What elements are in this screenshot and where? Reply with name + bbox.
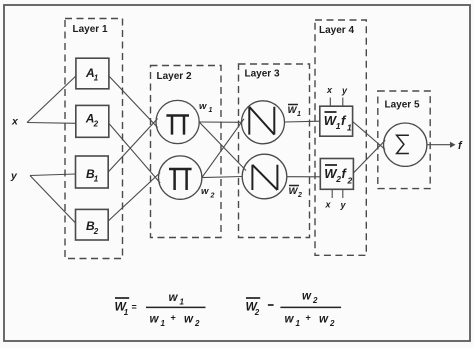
svg-text:2: 2 xyxy=(335,174,341,184)
x y stubs below rule box 2 xyxy=(331,189,333,198)
label Wbar2 xyxy=(289,185,299,187)
sum node circle xyxy=(384,123,427,166)
svg-text:W: W xyxy=(289,186,299,197)
svg-text:w: w xyxy=(199,101,207,112)
svg-text:w: w xyxy=(169,292,179,304)
x y stubs above rule box 1 xyxy=(329,98,331,107)
svg-text:Layer 1: Layer 1 xyxy=(73,24,108,35)
svg-text:w: w xyxy=(319,314,329,326)
svg-text:2: 2 xyxy=(312,296,318,305)
svg-text:2: 2 xyxy=(347,176,353,186)
wire x to A2 xyxy=(27,122,76,125)
svg-text:w: w xyxy=(184,314,194,326)
rule box 1 xyxy=(320,106,353,136)
wire x to A1 xyxy=(27,76,76,123)
svg-text:1: 1 xyxy=(347,123,352,133)
svg-text:Layer 5: Layer 5 xyxy=(385,100,420,111)
wire N1 to rule box 1 xyxy=(285,120,320,123)
svg-text:Layer 4: Layer 4 xyxy=(319,25,354,36)
svg-text:1: 1 xyxy=(180,298,185,307)
svg-text:2: 2 xyxy=(254,308,260,317)
equation 2: Wbar2 = w2/(w1+w2) xyxy=(246,297,260,299)
product node P2 circle xyxy=(159,156,202,199)
svg-text:Layer 3: Layer 3 xyxy=(245,69,280,80)
wire y to B1 xyxy=(30,174,76,176)
svg-text:1: 1 xyxy=(296,319,301,328)
wire rule box 1 to Sum xyxy=(353,122,385,150)
svg-text:y: y xyxy=(341,86,348,96)
svg-text:2: 2 xyxy=(210,192,215,199)
wire A2 to P2 xyxy=(109,123,160,183)
Layer 5 dashed box xyxy=(378,91,430,189)
wire B2 to P2 xyxy=(108,173,160,222)
membership box A1 xyxy=(76,58,109,89)
svg-text:+: + xyxy=(171,313,176,323)
membership box A2 xyxy=(76,105,109,137)
wire P1 to N1 xyxy=(199,121,241,123)
wire N2 to rule box 2 xyxy=(287,176,321,178)
svg-text:w: w xyxy=(285,314,295,326)
svg-text:w: w xyxy=(150,314,160,326)
svg-text:1: 1 xyxy=(94,74,99,83)
svg-text:y: y xyxy=(10,170,18,182)
svg-text:2: 2 xyxy=(329,319,335,328)
output arrow wire xyxy=(427,144,451,146)
svg-text:2: 2 xyxy=(93,120,99,129)
svg-text:y: y xyxy=(340,200,347,210)
svg-text:+: + xyxy=(306,313,311,323)
svg-text:1: 1 xyxy=(209,107,213,114)
membership box B1 xyxy=(76,156,109,188)
Layer 3 dashed box xyxy=(239,64,310,238)
norm node N2 circle xyxy=(242,154,287,199)
svg-text:1: 1 xyxy=(297,111,301,118)
svg-text:2: 2 xyxy=(194,319,200,328)
Layer 1 dashed box xyxy=(65,19,123,259)
wire y to B2 xyxy=(30,176,76,224)
svg-text:w: w xyxy=(302,291,312,303)
svg-text:x: x xyxy=(325,200,332,210)
wire B1 to P1 xyxy=(108,119,157,173)
equation 1: Wbar1 = w1/(w1+w2) xyxy=(115,297,129,299)
Layer 4 dashed box xyxy=(315,20,366,255)
wire rule box 2 to Sum xyxy=(353,140,385,173)
wire A1 to P1 xyxy=(109,76,158,128)
svg-text:x: x xyxy=(326,85,333,95)
wire P2 to N2 xyxy=(202,177,242,178)
wire P2 to N1 xyxy=(202,119,244,178)
svg-text:2: 2 xyxy=(297,192,302,199)
norm node N1 circle xyxy=(242,101,285,144)
product node P1 circle xyxy=(156,100,199,143)
svg-text:1: 1 xyxy=(161,319,166,328)
svg-text:x: x xyxy=(11,116,19,128)
label Wbar1 xyxy=(288,104,298,106)
svg-text:1: 1 xyxy=(94,175,99,184)
svg-text:W: W xyxy=(288,105,298,116)
wire P1 to N2 xyxy=(199,122,246,171)
svg-text:Layer 2: Layer 2 xyxy=(157,71,192,82)
svg-text:2: 2 xyxy=(93,227,99,236)
svg-text:1: 1 xyxy=(124,308,129,317)
membership box B2 xyxy=(76,209,109,240)
rule box 2 xyxy=(320,159,353,190)
svg-text:=: = xyxy=(132,302,137,312)
svg-text:w: w xyxy=(201,186,209,197)
Layer 2 dashed box xyxy=(151,66,222,238)
